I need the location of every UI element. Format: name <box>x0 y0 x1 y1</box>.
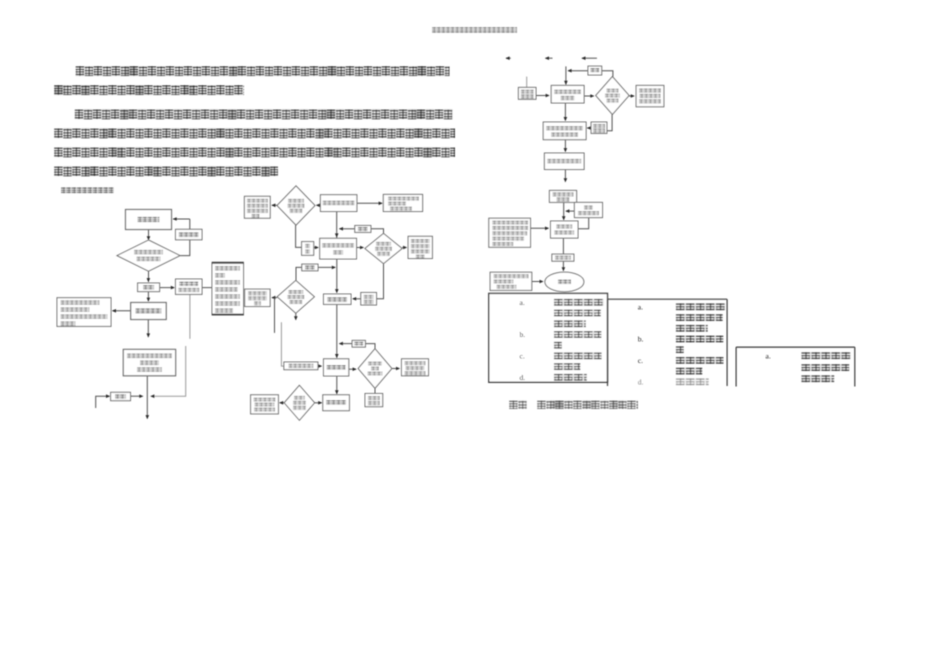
box B22 中间验收确认 <box>365 394 383 407</box>
wire A5 bottom vertical gray segment <box>189 294 191 338</box>
box D2 list a.施工组织设计、分项工程施工方案 b.备料、材料检验 c.分包商资质 d.施工设备 <box>608 299 728 386</box>
header line 精品文档---下载后可任意编辑 <box>432 27 517 33</box>
box C7 计量柜、配电柜、调压器、干式变安装 <box>543 122 586 140</box>
diamond B8 中间分项验收要点（竣工） <box>365 233 402 263</box>
box C8 桥架、接地扁铁焊接 <box>544 153 584 170</box>
wire C12 -> C11 <box>531 227 550 231</box>
diamond B14 中间分项验收要点（记录） <box>284 385 314 420</box>
wire B8 right -> B17 <box>402 246 407 250</box>
svg-text:a.: a. <box>520 298 525 307</box>
stub arrow 3 top <box>581 56 597 60</box>
wire C6 -> C7 <box>587 126 592 130</box>
wire B13 bottom -> B16 top <box>335 376 339 394</box>
box A4 通过 <box>138 283 160 292</box>
box D3 list a.施工组织设计、分项工程施工方案 <box>736 347 855 386</box>
wire C13 bottom -> C14 ellipse <box>562 261 566 271</box>
wire C9 bottom -> C11 <box>562 202 566 220</box>
wire B7 返工 -> B3B5 line <box>339 227 355 231</box>
caption 三：分项工程质量计划流程图： <box>509 400 638 409</box>
box C10 整改 要点（记录） <box>574 202 602 217</box>
box A1 图纸设计 <box>126 210 172 230</box>
box B7 返工 <box>355 226 371 233</box>
diamond B2 中间分项验收要点（竣工） <box>277 186 315 225</box>
wire B20 right -> B21 <box>392 367 400 371</box>
wire gray segment -> join centre line above 返工 row <box>150 346 186 398</box>
wire C2 返工 -> top vertical <box>567 69 588 73</box>
wire B3 right -> B6 list <box>357 202 383 206</box>
wire B3 -> B2 diamond <box>316 204 321 208</box>
svg-text:d.: d. <box>638 378 644 387</box>
wire into A8 返工 from left with stub <box>96 394 111 408</box>
box B12 分项工程质量验收记录表 <box>245 289 270 306</box>
svg-text:b.: b. <box>520 330 526 339</box>
wire B14 right -> B16 <box>315 401 323 405</box>
box B16 电缆敷设 <box>323 395 350 411</box>
wire C15 -> C14 <box>532 280 544 284</box>
wire B3 bottom -> B5 top <box>335 212 339 239</box>
box C6 中间验收通过 <box>591 122 607 133</box>
paragraph 1 line 1 最终检验和试验包括：质量记录(竣工资料 的验证和产品现场验证： 1： 规定的进货检验、 <box>76 66 450 76</box>
box B18 中间验收 <box>361 293 377 306</box>
svg-text:b.: b. <box>638 335 644 344</box>
wire B4 -> B5 <box>314 246 319 250</box>
wire C3 -> C5 <box>629 94 635 98</box>
box B3 电缆土建基础施工 <box>320 195 357 212</box>
wire stub above C4 <box>526 77 528 88</box>
wire A7 bottom -> end arrow <box>146 376 150 420</box>
diamond B11 中间分项验收要点（竣工） <box>277 280 314 313</box>
box B17 分项工程质量验收记录表要点（记录） <box>408 236 432 258</box>
box B15 分项工程质量验收记录表 要点（记录） <box>251 395 279 414</box>
paragraph 2 line 1 2：单位工程必须按合同内容和设计图纸要求，全部完成才能进行最终验证： 3：最终检验 <box>75 109 453 119</box>
box A5 施工备料 要点(开工) <box>176 279 203 294</box>
ellipse C14 竣工 <box>545 272 584 292</box>
wire A6 left -> plan list box <box>112 309 131 313</box>
wire B7 right -> B8 top <box>371 229 384 234</box>
box A7 项目施工方与业主进行技术交底 要点（记录） <box>123 349 175 375</box>
wire B19 right -> B20 top <box>365 344 375 349</box>
box C9 受电送电并网试运行 <box>549 190 576 202</box>
wire A6 bottom -> down arrow <box>147 320 151 338</box>
wire B5 bottom -> B9 top <box>335 259 339 293</box>
wire B10 返工 -> line above B9 <box>318 266 336 270</box>
wire B8 bottom -> B18 中间验收 <box>377 264 384 299</box>
box B23 中间验收确认 <box>284 362 318 370</box>
paragraph 2 line 4 竣工交付手续，并签署《单位工程竣工验收证明书》 <box>54 166 278 176</box>
box B19 返工 <box>352 340 365 347</box>
box C4 中间验收通过 <box>518 87 536 99</box>
wire B14 left -> B15 <box>279 401 284 405</box>
box A-right material list 提交材料报验表等 <box>212 262 244 315</box>
svg-text:a.: a. <box>766 351 771 360</box>
wire junction vertical below B11 arrow <box>274 298 276 333</box>
wire B11 bottom short arrow <box>294 313 298 320</box>
box C1 汇流排、电气设备连接 <box>551 85 584 103</box>
paragraph 1 line 2 过程检验已完成，才能进行最终验证： <box>54 85 244 95</box>
wire C10 整改 -> vertical <box>565 209 574 213</box>
wire B5 -> B8 diamond <box>357 246 365 250</box>
wire top vertical -> C1 <box>564 66 568 85</box>
diamond B20 中间分项验收要点（竣工） <box>358 349 392 389</box>
wire C2 right -> C3 top <box>602 71 613 77</box>
box B9 线槽安装 <box>324 294 352 304</box>
paragraph 2 line 2 由公司工程部组织预验收，预验收通过后填写单位工程竣工报告： 4：工程竣工资料必须齐 <box>54 128 455 138</box>
stub arrow 1 top <box>505 56 510 60</box>
section label 五：电缆建设施工流程图： <box>61 187 114 193</box>
stub arrow 2 top <box>545 56 553 60</box>
wire B9 bottom -> B13 top <box>335 304 339 358</box>
wire B23 -> B13 <box>318 364 322 368</box>
box A-left list 1施工组织设计 2备料计划 3项目施工计划各人员安排计划 <box>57 298 111 327</box>
box C13 验收通过 <box>552 254 574 261</box>
wire gray connector -> B23 <box>281 322 284 366</box>
svg-text:c.: c. <box>638 356 643 365</box>
svg-text:a.: a. <box>638 303 643 312</box>
wire B20 bottom -> B22 <box>374 388 376 393</box>
wire A4 right -> A5 施工备料 <box>160 286 175 290</box>
wire B11 left -> B12 <box>271 296 277 300</box>
box C2 返工 <box>588 66 602 75</box>
box B6 list 提交材料报验单 合格证 要点（记录） <box>383 194 422 211</box>
box A6 施工方进场 <box>131 303 167 320</box>
paragraph 2 line 3 全、同步，由公司工程部审核验证后提交监理工程师核查。 最终检验和试验完成且通过，办理 <box>54 147 455 157</box>
svg-text:c.: c. <box>520 352 525 361</box>
diamond C3 中间分项验收要点（竣工） <box>596 77 629 115</box>
wire C3 bottom -> C6 <box>607 114 612 130</box>
box C11 项目验收 要点（竣工） <box>551 221 579 238</box>
wire C11 right -> up -> C10 bottom <box>578 218 589 229</box>
box B1 分项工程质量验收记录表要点（记录） <box>244 196 270 218</box>
box B10 返工 <box>302 264 318 271</box>
box C12 原材料进场检验单产品合格证、中间验收报告单等 要点（记录） <box>489 218 531 247</box>
box B21 分项工程质量验收记录表要点（记录） <box>402 359 429 376</box>
box B4 报验 <box>302 242 314 256</box>
wire C7 bottom -> C8 <box>564 140 568 153</box>
wire B19 返工 -> line above B13 <box>339 342 352 346</box>
wire A1->A3 diamond <box>147 230 151 241</box>
wire C1 bottom -> C7 <box>564 103 568 121</box>
wire B10 left -> B11 top <box>296 267 302 280</box>
box C5 分项工程质量验收记录表 要点（记录） <box>636 85 664 106</box>
wire B2 left tip -> B1 <box>271 204 277 208</box>
wire B13 -> B20 diamond <box>349 367 357 371</box>
wire A5 right -> material list box <box>202 287 212 289</box>
wire C8 bottom dangling arrow <box>564 170 568 183</box>
wire B2 bottom -> B4 报验 <box>296 225 302 247</box>
wire C4 -> C1 <box>536 94 550 98</box>
box A8 返工 <box>111 392 131 400</box>
wire A3 right tip -> up -> into A1 (via 修改图纸) <box>173 217 190 255</box>
wire A3 bottom -> A4 通过 <box>147 271 151 282</box>
wire A8 返工 -> centre line <box>131 394 144 398</box>
box B13 桥架安装 <box>324 359 349 376</box>
svg-text:d.: d. <box>520 373 526 382</box>
box A2 修改图纸 <box>176 229 203 240</box>
diamond A3 设计、施工、项目业主会审 <box>117 240 180 271</box>
wire A4 -> A6 施工方进场 <box>147 292 151 302</box>
wire B18 -> B9 <box>352 297 361 301</box>
box D1 list a.施工组织设计、分项工程施工方案 b.备料、材料检验 c.分包商资质 d.施工设备 <box>489 293 608 382</box>
wire C11 bottom -> C13 <box>562 238 564 254</box>
wire C1 -> C3 <box>584 94 594 98</box>
box B5 结构、预埋、穿线槽安装 <box>320 238 357 259</box>
box C15 电缆鉴定记录、试运行管理制度 要点（记录） <box>490 272 532 290</box>
